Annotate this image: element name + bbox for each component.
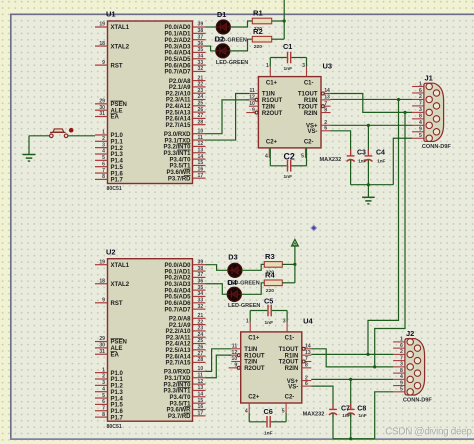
svg-text:38: 38 <box>198 266 204 272</box>
svg-text:7: 7 <box>305 356 308 362</box>
svg-text:C6: C6 <box>264 407 273 416</box>
svg-text:8: 8 <box>400 368 403 374</box>
svg-text:9: 9 <box>419 127 422 133</box>
svg-text:D4: D4 <box>228 278 238 287</box>
svg-text:P1.6: P1.6 <box>111 171 124 177</box>
svg-text:1nF: 1nF <box>284 174 293 180</box>
svg-text:T2OUT: T2OUT <box>279 360 299 366</box>
svg-text:P1.3: P1.3 <box>111 152 124 158</box>
svg-text:5: 5 <box>301 153 304 159</box>
svg-text:J2: J2 <box>406 329 414 338</box>
svg-text:EA: EA <box>111 352 120 358</box>
svg-text:14: 14 <box>198 392 204 398</box>
svg-text:T1IN: T1IN <box>262 92 275 98</box>
svg-text:1: 1 <box>102 367 105 373</box>
svg-text:P2.4/A12: P2.4/A12 <box>165 104 191 110</box>
svg-text:19: 19 <box>99 22 105 28</box>
svg-text:P3.0/RXD: P3.0/RXD <box>164 132 191 138</box>
svg-text:25: 25 <box>198 338 204 344</box>
svg-text:R1OUT: R1OUT <box>262 98 283 104</box>
svg-text:3: 3 <box>400 362 403 368</box>
svg-text:4: 4 <box>400 374 403 380</box>
svg-text:P1.6: P1.6 <box>111 409 124 415</box>
svg-text:P1.2: P1.2 <box>111 146 124 152</box>
svg-text:P2.1/A9: P2.1/A9 <box>169 85 191 91</box>
svg-text:8: 8 <box>324 107 327 113</box>
svg-text:17: 17 <box>198 173 204 179</box>
svg-text:1nF: 1nF <box>264 431 273 437</box>
svg-text:CONN-D9F: CONN-D9F <box>422 144 451 150</box>
svg-text:2: 2 <box>419 94 422 100</box>
svg-text:11: 11 <box>198 372 204 378</box>
svg-text:220: 220 <box>266 288 274 294</box>
svg-text:11: 11 <box>232 344 238 350</box>
svg-text:9: 9 <box>102 298 105 304</box>
svg-text:C2-: C2- <box>304 139 314 145</box>
svg-text:P2.2/A10: P2.2/A10 <box>165 329 191 335</box>
svg-text:P0.7/AD7: P0.7/AD7 <box>164 307 191 313</box>
svg-text:P0.1/AD1: P0.1/AD1 <box>164 269 191 275</box>
svg-text:8: 8 <box>305 363 308 369</box>
svg-text:MAX232: MAX232 <box>320 157 342 163</box>
svg-text:P0.4/AD4: P0.4/AD4 <box>164 288 191 294</box>
svg-text:P0.5/AD5: P0.5/AD5 <box>164 295 191 301</box>
svg-text:R2: R2 <box>253 27 263 36</box>
svg-text:4: 4 <box>419 120 422 126</box>
svg-text:39: 39 <box>198 22 204 28</box>
svg-text:C1-: C1- <box>285 336 295 342</box>
svg-text:R4: R4 <box>265 270 275 279</box>
svg-text:7: 7 <box>102 405 105 411</box>
svg-text:P2.0/A8: P2.0/A8 <box>169 79 191 85</box>
svg-text:12: 12 <box>249 95 255 101</box>
svg-text:P3.7/RD: P3.7/RD <box>168 176 191 182</box>
svg-text:T2IN: T2IN <box>244 360 257 366</box>
svg-text:35: 35 <box>198 285 204 291</box>
svg-text:18: 18 <box>99 278 105 284</box>
svg-text:34: 34 <box>198 53 204 59</box>
svg-text:R1: R1 <box>253 9 263 18</box>
svg-text:33: 33 <box>198 298 204 304</box>
svg-text:13: 13 <box>198 385 204 391</box>
svg-text:C2+: C2+ <box>266 139 278 145</box>
svg-text:1nF: 1nF <box>359 413 367 418</box>
svg-text:1: 1 <box>246 318 249 324</box>
svg-text:P1.4: P1.4 <box>111 396 124 402</box>
svg-text:9: 9 <box>102 60 105 66</box>
svg-text:37: 37 <box>198 272 204 278</box>
svg-text:PSEN: PSEN <box>111 102 127 108</box>
svg-text:P0.3/AD3: P0.3/AD3 <box>164 282 191 288</box>
svg-text:C1: C1 <box>283 42 292 51</box>
svg-text:P0.0/AD0: P0.0/AD0 <box>164 25 191 31</box>
svg-text:PSEN: PSEN <box>111 340 127 346</box>
svg-text:11: 11 <box>198 135 204 141</box>
svg-text:18: 18 <box>99 41 105 47</box>
svg-text:35: 35 <box>198 47 204 53</box>
svg-text:16: 16 <box>198 167 204 173</box>
svg-text:P0.1/AD1: P0.1/AD1 <box>164 32 191 38</box>
svg-text:P3.4/T0: P3.4/T0 <box>169 157 191 163</box>
svg-text:12: 12 <box>232 350 238 356</box>
svg-text:31: 31 <box>99 349 105 355</box>
svg-text:28: 28 <box>198 119 204 125</box>
svg-text:6: 6 <box>419 88 422 94</box>
svg-text:28: 28 <box>198 357 204 363</box>
svg-text:30: 30 <box>99 343 105 349</box>
svg-text:CONN-D9F: CONN-D9F <box>403 398 432 404</box>
svg-text:J1: J1 <box>425 73 433 82</box>
svg-text:P1.0: P1.0 <box>111 133 124 139</box>
svg-text:P3.4/T0: P3.4/T0 <box>169 395 191 401</box>
svg-text:R3: R3 <box>265 252 275 261</box>
svg-text:P2.6/A14: P2.6/A14 <box>165 354 191 360</box>
svg-text:XTAL1: XTAL1 <box>111 25 130 31</box>
svg-text:26: 26 <box>198 345 204 351</box>
svg-text:P0.6/AD6: P0.6/AD6 <box>164 63 191 69</box>
svg-text:P0.7/AD7: P0.7/AD7 <box>164 70 191 76</box>
svg-text:RST: RST <box>111 301 123 307</box>
svg-text:3: 3 <box>302 63 305 69</box>
svg-text:P2.2/A10: P2.2/A10 <box>165 91 191 97</box>
svg-text:1nF: 1nF <box>377 159 385 164</box>
svg-text:C1+: C1+ <box>248 336 260 342</box>
svg-text:24: 24 <box>198 94 204 100</box>
svg-text:VS-: VS- <box>307 129 317 135</box>
svg-text:P0.5/AD5: P0.5/AD5 <box>164 57 191 63</box>
svg-text:P1.3: P1.3 <box>111 390 124 396</box>
svg-text:1nF: 1nF <box>265 320 274 326</box>
svg-text:T2IN: T2IN <box>262 104 275 110</box>
svg-text:C7: C7 <box>341 406 350 413</box>
svg-text:U1: U1 <box>106 10 116 19</box>
svg-text:7: 7 <box>419 101 422 107</box>
svg-text:7: 7 <box>102 168 105 174</box>
svg-text:3: 3 <box>283 318 286 324</box>
svg-text:6: 6 <box>102 161 105 167</box>
svg-text:T2OUT: T2OUT <box>298 104 318 110</box>
svg-text:P1.7: P1.7 <box>111 178 124 184</box>
svg-text:19: 19 <box>99 259 105 265</box>
svg-text:31: 31 <box>99 111 105 117</box>
svg-text:4: 4 <box>245 409 248 415</box>
svg-text:P2.6/A14: P2.6/A14 <box>165 117 191 123</box>
svg-text:11: 11 <box>250 88 256 94</box>
svg-text:P1.1: P1.1 <box>111 140 124 146</box>
svg-text:P3.3/INT1: P3.3/INT1 <box>163 151 191 157</box>
svg-text:8: 8 <box>419 114 422 120</box>
svg-text:1: 1 <box>266 63 269 69</box>
svg-text:24: 24 <box>198 332 204 338</box>
svg-text:14: 14 <box>324 88 330 94</box>
svg-text:29: 29 <box>99 99 105 105</box>
svg-text:CSDN @diving deep: CSDN @diving deep <box>385 426 472 437</box>
svg-text:P2.3/A11: P2.3/A11 <box>166 335 191 341</box>
svg-text:C3: C3 <box>357 150 366 157</box>
svg-text:15: 15 <box>198 398 204 404</box>
svg-text:3: 3 <box>419 107 422 113</box>
svg-text:27: 27 <box>198 113 204 119</box>
svg-text:37: 37 <box>198 34 204 40</box>
svg-text:RST: RST <box>111 63 123 69</box>
svg-text:7: 7 <box>324 101 327 107</box>
svg-text:38: 38 <box>198 28 204 34</box>
svg-text:P3.7/RD: P3.7/RD <box>168 414 191 420</box>
svg-text:7: 7 <box>400 355 403 361</box>
svg-text:21: 21 <box>198 75 204 81</box>
svg-text:2: 2 <box>102 374 105 380</box>
svg-text:34: 34 <box>198 291 204 297</box>
svg-text:R2OUT: R2OUT <box>244 366 265 372</box>
svg-text:9: 9 <box>400 380 403 386</box>
svg-text:25: 25 <box>198 101 204 107</box>
svg-text:P2.0/A8: P2.0/A8 <box>169 317 191 323</box>
svg-text:P2.5/A13: P2.5/A13 <box>165 348 191 354</box>
svg-text:T1OUT: T1OUT <box>279 347 299 353</box>
svg-text:22: 22 <box>198 319 204 325</box>
svg-text:R2OUT: R2OUT <box>262 111 283 117</box>
svg-text:P2.7/A15: P2.7/A15 <box>165 123 191 129</box>
svg-text:D2: D2 <box>215 35 224 44</box>
svg-text:6: 6 <box>102 399 105 405</box>
svg-text:6: 6 <box>400 343 403 349</box>
svg-text:5: 5 <box>102 393 105 399</box>
svg-text:9: 9 <box>234 363 237 369</box>
svg-text:XTAL2: XTAL2 <box>111 282 130 288</box>
svg-text:P3.3/INT1: P3.3/INT1 <box>163 389 191 395</box>
svg-text:14: 14 <box>305 344 311 350</box>
svg-text:P2.3/A11: P2.3/A11 <box>166 98 191 104</box>
svg-text:23: 23 <box>198 326 204 332</box>
svg-text:P1.5: P1.5 <box>111 165 124 171</box>
svg-text:R2IN: R2IN <box>304 111 318 117</box>
svg-text:P2.1/A9: P2.1/A9 <box>169 323 191 329</box>
svg-text:1nF: 1nF <box>358 159 366 164</box>
svg-text:2: 2 <box>400 349 403 355</box>
svg-text:4: 4 <box>265 153 268 159</box>
svg-text:13: 13 <box>324 95 330 101</box>
svg-text:2: 2 <box>102 136 105 142</box>
svg-text:36: 36 <box>198 41 204 47</box>
svg-text:1nF: 1nF <box>342 413 350 418</box>
svg-text:8: 8 <box>102 412 105 418</box>
svg-text:C1+: C1+ <box>266 80 278 86</box>
svg-text:6: 6 <box>324 126 327 132</box>
svg-text:1: 1 <box>400 337 403 343</box>
svg-text:39: 39 <box>198 259 204 265</box>
svg-text:26: 26 <box>198 107 204 113</box>
svg-text:4: 4 <box>102 386 105 392</box>
svg-text:P0.2/AD2: P0.2/AD2 <box>164 276 191 282</box>
svg-text:P0.2/AD2: P0.2/AD2 <box>164 38 191 44</box>
svg-text:4: 4 <box>102 149 105 155</box>
svg-text:27: 27 <box>198 351 204 357</box>
svg-text:XTAL2: XTAL2 <box>111 44 130 50</box>
svg-text:P1.2: P1.2 <box>111 384 124 390</box>
svg-text:D1: D1 <box>217 10 226 19</box>
svg-text:5: 5 <box>282 409 285 415</box>
svg-text:P1.7: P1.7 <box>111 415 124 421</box>
svg-text:10: 10 <box>249 101 255 107</box>
svg-text:220: 220 <box>254 44 262 50</box>
svg-text:MAX232: MAX232 <box>303 412 325 418</box>
svg-text:16: 16 <box>198 404 204 410</box>
svg-text:VS-: VS- <box>288 384 298 390</box>
svg-text:14: 14 <box>198 154 204 160</box>
svg-text:P1.5: P1.5 <box>111 403 124 409</box>
svg-text:12: 12 <box>198 379 204 385</box>
svg-text:P0.4/AD4: P0.4/AD4 <box>164 51 191 57</box>
svg-text:P1.0: P1.0 <box>111 371 124 377</box>
svg-text:5: 5 <box>400 387 403 393</box>
svg-text:17: 17 <box>198 411 204 417</box>
svg-text:C5: C5 <box>264 297 273 306</box>
svg-text:13: 13 <box>305 350 311 356</box>
svg-text:30: 30 <box>99 105 105 111</box>
svg-text:C4: C4 <box>376 150 385 157</box>
svg-text:R1IN: R1IN <box>285 353 299 359</box>
svg-text:T1OUT: T1OUT <box>298 92 318 98</box>
svg-text:R1IN: R1IN <box>304 98 318 104</box>
svg-text:23: 23 <box>198 88 204 94</box>
svg-text:LED-GREEN: LED-GREEN <box>228 303 260 309</box>
svg-text:22: 22 <box>198 82 204 88</box>
svg-text:29: 29 <box>99 336 105 342</box>
svg-text:21: 21 <box>198 313 204 319</box>
svg-text:10: 10 <box>198 128 204 134</box>
svg-text:P1.1: P1.1 <box>111 377 124 383</box>
svg-text:XTAL1: XTAL1 <box>111 263 130 269</box>
svg-text:P0.3/AD3: P0.3/AD3 <box>164 44 191 50</box>
svg-text:80C51: 80C51 <box>107 186 122 192</box>
svg-text:32: 32 <box>198 66 204 72</box>
svg-text:P0.0/AD0: P0.0/AD0 <box>164 263 191 269</box>
svg-text:P2.7/A15: P2.7/A15 <box>165 361 191 367</box>
svg-text:LED-GREEN: LED-GREEN <box>216 60 248 66</box>
svg-text:36: 36 <box>198 278 204 284</box>
svg-text:C2-: C2- <box>285 395 295 401</box>
svg-text:EA: EA <box>111 115 120 121</box>
svg-text:P0.6/AD6: P0.6/AD6 <box>164 301 191 307</box>
svg-text:C2+: C2+ <box>248 395 260 401</box>
svg-text:5: 5 <box>419 133 422 139</box>
svg-text:C2: C2 <box>284 152 295 162</box>
svg-text:12: 12 <box>198 141 204 147</box>
svg-text:10: 10 <box>198 366 204 372</box>
svg-text:15: 15 <box>198 160 204 166</box>
svg-text:1: 1 <box>419 81 422 87</box>
svg-text:3: 3 <box>102 380 105 386</box>
svg-text:P3.0/RXD: P3.0/RXD <box>164 370 191 376</box>
svg-text:T1IN: T1IN <box>244 347 257 353</box>
svg-text:P1.4: P1.4 <box>111 159 124 165</box>
svg-text:R2IN: R2IN <box>285 366 299 372</box>
svg-text:5: 5 <box>102 155 105 161</box>
svg-text:R1OUT: R1OUT <box>244 353 265 359</box>
svg-text:9: 9 <box>252 107 255 113</box>
svg-text:13: 13 <box>198 147 204 153</box>
svg-text:P2.4/A12: P2.4/A12 <box>165 342 191 348</box>
svg-text:10: 10 <box>232 356 238 362</box>
svg-text:32: 32 <box>198 304 204 310</box>
svg-text:33: 33 <box>198 60 204 66</box>
svg-text:D3: D3 <box>228 253 237 262</box>
svg-text:1nF: 1nF <box>284 66 293 72</box>
svg-text:U4: U4 <box>303 317 313 326</box>
svg-text:U3: U3 <box>323 62 333 71</box>
svg-text:6: 6 <box>305 381 308 387</box>
svg-text:C8: C8 <box>357 406 366 413</box>
svg-text:3: 3 <box>102 142 105 148</box>
svg-text:1: 1 <box>102 130 105 136</box>
svg-text:U2: U2 <box>106 247 116 256</box>
svg-text:P2.5/A13: P2.5/A13 <box>165 110 191 116</box>
svg-text:80C51: 80C51 <box>107 424 122 430</box>
svg-text:C1-: C1- <box>304 80 314 86</box>
svg-text:8: 8 <box>102 174 105 180</box>
